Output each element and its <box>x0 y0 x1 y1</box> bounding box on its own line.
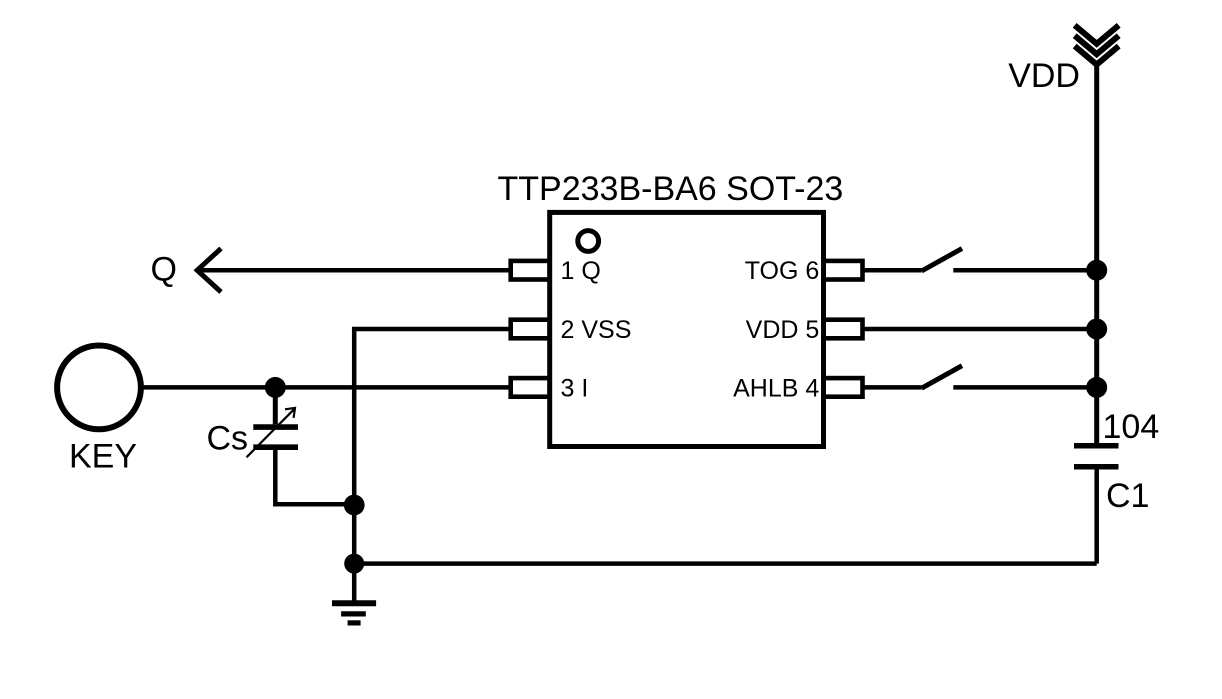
capacitor C1 top plate <box>1074 443 1119 449</box>
pin 1 box <box>511 261 550 280</box>
svg-text:3 I: 3 I <box>561 374 589 402</box>
wire pin1 Q output <box>196 268 511 273</box>
capacitor Cs bottom plate <box>253 444 298 450</box>
wire pin4 AHLB to switch <box>862 385 922 390</box>
svg-text:TOG 6: TOG 6 <box>745 257 820 285</box>
switch blade S1 <box>922 249 962 272</box>
svg-text:C1: C1 <box>1106 477 1149 515</box>
junction dot VDD5/rail <box>1086 319 1107 340</box>
arrowhead Q output <box>197 249 221 293</box>
pin 5 box <box>824 320 863 339</box>
junction dot ground/bottom wire <box>344 554 364 574</box>
pin 2 box <box>511 320 550 339</box>
wire pin2 VSS to ground rail <box>354 329 511 505</box>
svg-text:AHLB 4: AHLB 4 <box>733 374 819 402</box>
pin 1 indicator circle <box>578 231 599 252</box>
wire C1 bottom <box>1094 469 1099 563</box>
power symbol VDD <box>1075 25 1119 64</box>
wire junction to ground <box>352 505 357 603</box>
wire VDD rail vertical <box>1094 62 1099 443</box>
pad KEY circle <box>57 346 141 430</box>
svg-text:VDD 5: VDD 5 <box>746 316 820 344</box>
wire KEY to pin3 <box>141 385 511 390</box>
svg-text:Cs: Cs <box>206 420 248 458</box>
capacitor C1 bottom plate <box>1074 464 1119 470</box>
ground symbol <box>332 603 376 623</box>
IC U1 TTP233B-BA6 body <box>550 212 824 446</box>
wire pin5 VDD to rail <box>862 327 1097 332</box>
svg-text:TTP233B-BA6 SOT-23: TTP233B-BA6 SOT-23 <box>498 170 844 208</box>
junction dot AHLB/rail <box>1086 377 1107 398</box>
wire switch S2 to VDD rail <box>953 385 1096 390</box>
svg-text:KEY: KEY <box>69 437 137 475</box>
capacitor Cs top stub wire <box>273 387 278 424</box>
wire pin6 TOG to switch <box>862 268 922 273</box>
junction dot VSS/Cs <box>344 495 365 516</box>
svg-text:104: 104 <box>1103 408 1160 446</box>
svg-text:1 Q: 1 Q <box>561 257 601 285</box>
svg-text:Q: Q <box>151 251 177 289</box>
pin 3 box <box>511 378 550 397</box>
svg-text:VDD: VDD <box>1008 57 1080 95</box>
wire switch S1 to VDD rail <box>953 268 1096 273</box>
svg-text:2 VSS: 2 VSS <box>561 316 632 344</box>
junction dot KEY/Cs <box>265 377 286 398</box>
junction dot TOG/rail <box>1086 260 1107 281</box>
pin 4 box <box>824 378 863 397</box>
switch blade S2 <box>922 366 962 389</box>
wire bottom return to C1 <box>354 561 1096 566</box>
capacitor Cs top plate <box>253 424 298 430</box>
pin 6 box <box>824 261 863 280</box>
wire Cs bottom to junction <box>275 450 354 504</box>
variable capacitor arrow Cs <box>247 408 296 457</box>
